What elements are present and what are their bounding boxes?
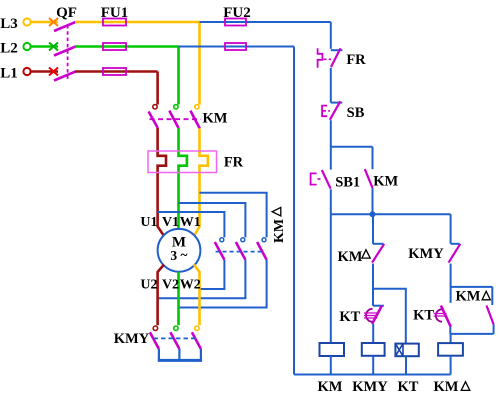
svg-text:V1: V1: [162, 215, 179, 230]
svg-text:QF: QF: [56, 5, 77, 21]
svg-text:FU1: FU1: [101, 5, 129, 21]
svg-text:U2: U2: [140, 277, 157, 292]
svg-text:FR: FR: [346, 52, 366, 68]
svg-text:KM: KM: [456, 288, 481, 304]
svg-text:KMY: KMY: [114, 331, 150, 347]
svg-text:KT: KT: [398, 379, 419, 395]
svg-text:KT: KT: [339, 309, 360, 325]
svg-text:L2: L2: [0, 41, 18, 57]
svg-text:KM: KM: [272, 219, 287, 243]
svg-text:KM: KM: [203, 111, 228, 127]
svg-text:W1: W1: [180, 215, 201, 230]
svg-text:V2: V2: [162, 277, 179, 292]
svg-text:3 ~: 3 ~: [170, 247, 187, 263]
svg-text:KM: KM: [318, 379, 343, 395]
svg-text:FU2: FU2: [223, 5, 251, 21]
svg-text:SB: SB: [347, 105, 365, 121]
svg-text:U1: U1: [140, 215, 157, 230]
svg-text:FR: FR: [224, 155, 244, 171]
svg-text:KMY: KMY: [352, 379, 388, 395]
svg-text:KMY: KMY: [408, 246, 444, 262]
svg-text:W2: W2: [180, 277, 201, 292]
svg-text:KT: KT: [413, 307, 434, 323]
svg-text:KM: KM: [373, 173, 398, 189]
svg-text:SB1: SB1: [335, 174, 360, 190]
svg-text:KM: KM: [434, 379, 459, 395]
svg-text:L3: L3: [0, 16, 18, 32]
svg-text:KM: KM: [338, 249, 363, 265]
svg-text:L1: L1: [0, 66, 18, 82]
